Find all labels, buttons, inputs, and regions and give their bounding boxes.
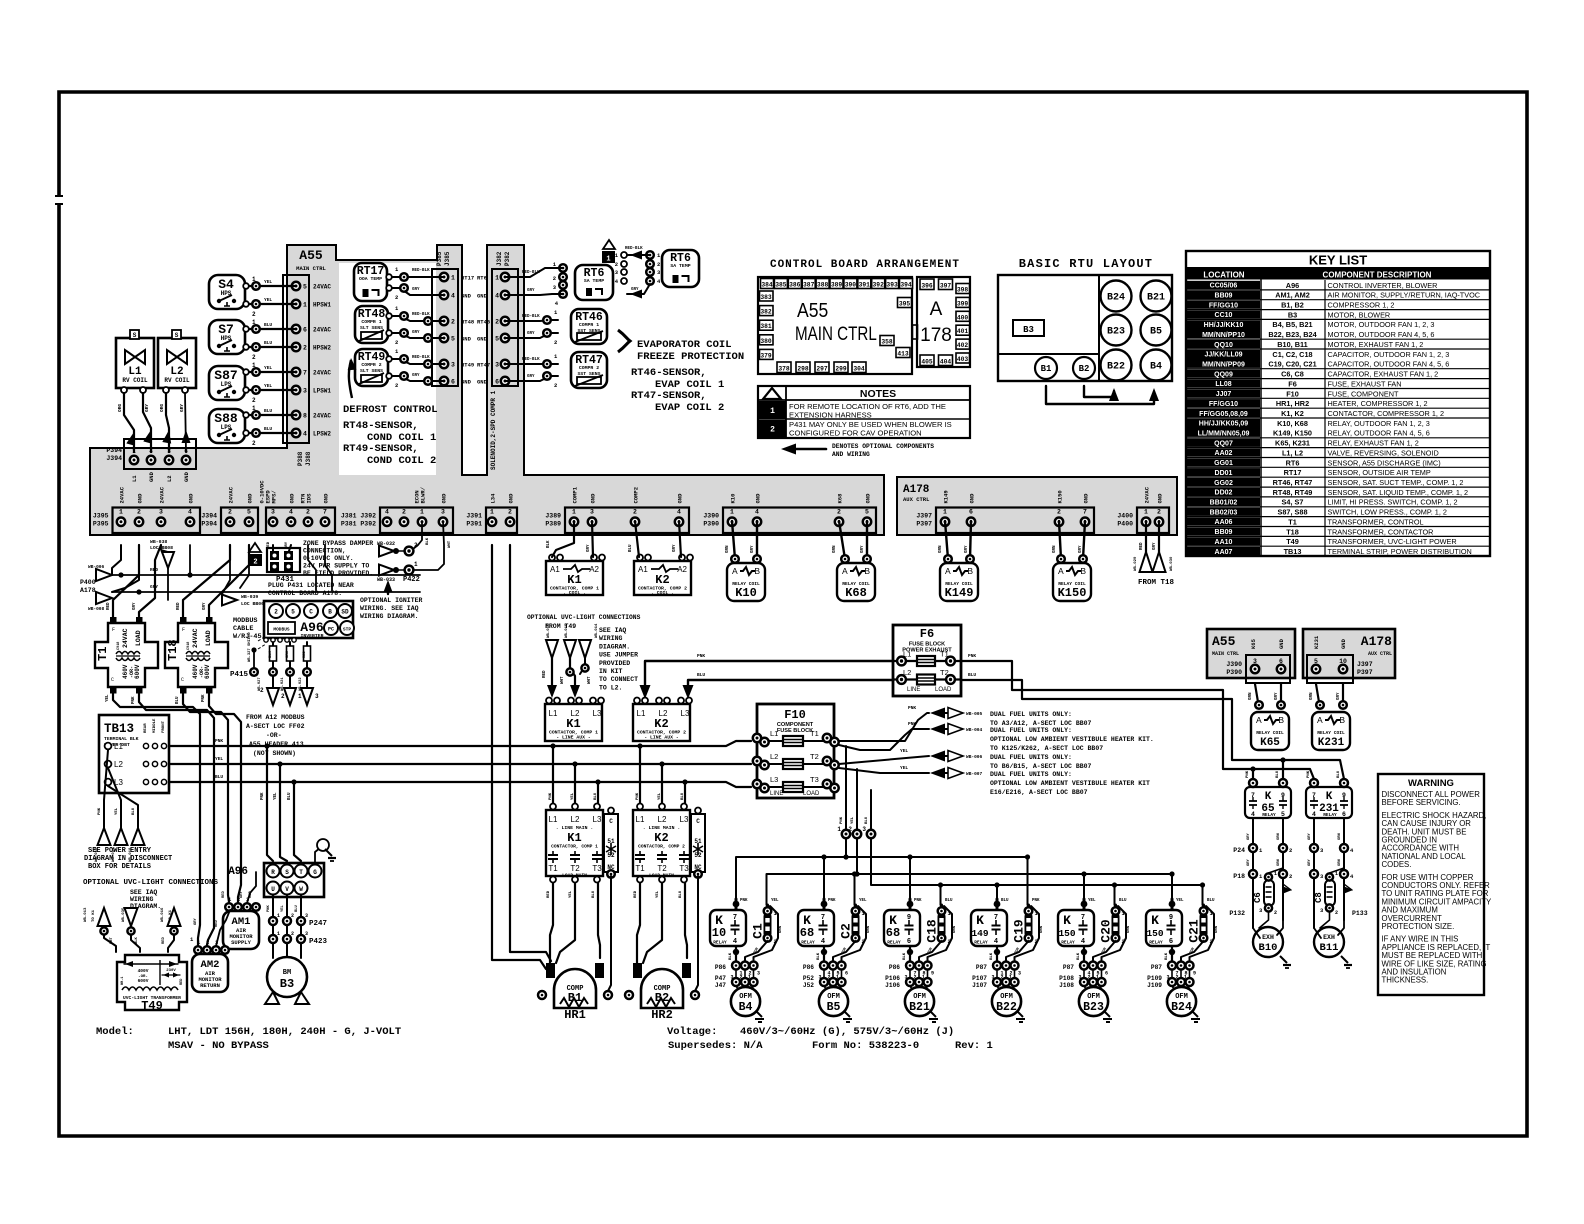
svg-text:J400: J400 <box>1117 513 1133 520</box>
svg-text:YEL: YEL <box>658 792 662 800</box>
svg-text:LPSW2: LPSW2 <box>313 431 331 438</box>
dual fuel arrow WB-006 <box>930 751 945 762</box>
svg-text:358: 358 <box>881 339 893 346</box>
svg-text:1: 1 <box>1009 975 1012 981</box>
svg-text:RTN: RTN <box>300 494 307 504</box>
svg-text:RELAY, OUTDOOR FAN 4, 5, 6: RELAY, OUTDOOR FAN 4, 5, 6 <box>1328 429 1430 438</box>
reversing valve solenoid L2 <box>158 338 196 388</box>
svg-text:WB-006: WB-006 <box>966 754 983 760</box>
svg-text:386: 386 <box>789 282 801 289</box>
svg-text:GND: GND <box>1083 493 1090 504</box>
svg-text:MODBUS: MODBUS <box>233 617 257 625</box>
svg-text:BLU: BLU <box>1276 770 1280 778</box>
svg-text:RELAY: RELAY <box>1323 812 1337 818</box>
svg-text:AM1, AM2: AM1, AM2 <box>1275 291 1310 300</box>
svg-text:GRY: GRY <box>965 545 969 553</box>
svg-text:A: A <box>1317 715 1323 725</box>
svg-text:3: 3 <box>495 362 499 369</box>
svg-text:OFM: OFM <box>827 993 840 1001</box>
svg-text:4: 4 <box>755 509 759 516</box>
wire F6 T1 right to K65 K231 pnk <box>961 661 1314 779</box>
svg-text:DENOTES OPTIONAL COMPONENTS: DENOTES OPTIONAL COMPONENTS <box>832 443 934 450</box>
svg-text:BLU: BLU <box>629 544 633 552</box>
svg-text:B: B <box>967 566 973 576</box>
svg-text:P86: P86 <box>889 964 900 971</box>
svg-text:YEL: YEL <box>274 792 278 800</box>
svg-text:T3: T3 <box>592 864 602 873</box>
svg-text:6: 6 <box>969 509 973 516</box>
svg-text:HR1: HR1 <box>564 1008 586 1022</box>
svg-text:B4, B5, B21: B4, B5, B21 <box>1272 320 1312 329</box>
svg-text:YEL: YEL <box>571 792 575 800</box>
svg-text:TERMINAL STRIP, POWER DISTRIBU: TERMINAL STRIP, POWER DISTRIBUTION <box>1328 547 1472 556</box>
svg-text:BLK: BLK <box>1165 952 1169 960</box>
key list row RT6 <box>1187 458 1260 466</box>
wires K2 load to B2 <box>637 883 640 963</box>
svg-text:24VAC: 24VAC <box>228 486 235 503</box>
svg-text:A55: A55 <box>797 299 828 321</box>
svg-text:GRN: GRN <box>726 545 730 553</box>
svg-text:2: 2 <box>1088 975 1091 981</box>
svg-text:GND: GND <box>148 471 155 482</box>
svg-text:IN KIT: IN KIT <box>599 668 623 675</box>
svg-text:3: 3 <box>1079 975 1082 981</box>
svg-text:PNK: PNK <box>636 792 640 800</box>
svg-text:WB-016: WB-016 <box>161 907 165 922</box>
svg-text:FF/GG10: FF/GG10 <box>1209 401 1238 408</box>
svg-text:P423: P423 <box>309 938 328 946</box>
uvc triangles to K1 aux <box>546 640 558 658</box>
svg-text:. LOAD MAIN .: . LOAD MAIN . <box>644 873 680 879</box>
svg-text:BLU: BLU <box>594 792 598 800</box>
svg-text:S: S <box>133 332 137 339</box>
key list table <box>1186 251 1490 556</box>
svg-text:24VAC: 24VAC <box>122 628 129 648</box>
outdoor fan relay K10 capacitor C1 motor B4 <box>735 899 738 910</box>
svg-text:A178: A178 <box>903 484 930 496</box>
svg-text:. LOAD MAIN .: . LOAD MAIN . <box>557 873 593 879</box>
svg-text:RT46: RT46 <box>477 319 490 326</box>
wire S4 pin1 to A55 <box>245 285 296 287</box>
svg-text:2: 2 <box>914 975 917 981</box>
svg-text:2: 2 <box>1289 847 1292 854</box>
svg-text:388: 388 <box>817 282 829 289</box>
svg-text:HPSW2: HPSW2 <box>313 345 331 352</box>
key list row C6, C8 <box>1187 370 1260 378</box>
svg-text:AA07: AA07 <box>1215 549 1233 556</box>
svg-text:J108: J108 <box>1059 982 1074 989</box>
wire S4 pin2 to A55 <box>245 303 296 305</box>
svg-text:K68: K68 <box>845 586 867 600</box>
svg-text:7: 7 <box>1083 509 1087 516</box>
svg-text:10: 10 <box>712 926 726 940</box>
svg-text:P106: P106 <box>885 975 900 982</box>
svg-text:OPTIONAL LOW AMBIENT VESTIBULE: OPTIONAL LOW AMBIENT VESTIBULE HEATER KI… <box>990 780 1150 787</box>
svg-text:EXH: EXH <box>1323 934 1335 941</box>
svg-text:Supersedes: N/A: Supersedes: N/A <box>668 1040 763 1052</box>
transformer T1 control <box>95 623 158 687</box>
svg-text:2: 2 <box>303 345 307 352</box>
svg-text:BLU: BLU <box>865 816 869 824</box>
svg-text:C6: C6 <box>1253 892 1263 903</box>
svg-text:JJ07: JJ07 <box>1216 391 1232 398</box>
svg-text:BLU: BLU <box>176 696 180 704</box>
svg-text:TO CONNECT: TO CONNECT <box>599 676 638 683</box>
relay feed rail pnk <box>736 857 1028 899</box>
svg-text:HR2: HR2 <box>651 1008 673 1022</box>
svg-text:PNT: PNT <box>110 936 114 944</box>
svg-text:BLK: BLK <box>547 540 551 548</box>
svg-text:YEL: YEL <box>106 694 110 702</box>
svg-text:1: 1 <box>836 975 839 981</box>
svg-text:LL/MM/NN05,09: LL/MM/NN05,09 <box>1198 431 1250 438</box>
svg-text:394: 394 <box>900 282 912 289</box>
svg-text:BASIC RTU LAYOUT: BASIC RTU LAYOUT <box>1019 257 1153 271</box>
svg-text:68: 68 <box>800 926 814 940</box>
feed wires K68 <box>823 857 825 899</box>
A178 aux ctrl right box <box>1303 629 1395 678</box>
svg-text:K1: K1 <box>567 573 581 587</box>
svg-text:YEL: YEL <box>1088 899 1096 903</box>
svg-text:DUAL FUEL UNITS ONLY:: DUAL FUEL UNITS ONLY: <box>990 711 1072 718</box>
svg-text:BB02/03: BB02/03 <box>1210 509 1238 516</box>
svg-text:2: 2 <box>281 693 285 700</box>
svg-text:2: 2 <box>740 975 743 981</box>
sensor RT47 compr 2 SST <box>571 352 607 388</box>
svg-text:RED: RED <box>222 890 226 898</box>
svg-text:2: 2 <box>252 440 256 447</box>
svg-text:4: 4 <box>821 938 825 946</box>
svg-text:1: 1 <box>922 975 925 981</box>
fan circle B22 <box>1101 350 1132 381</box>
svg-text:WB-029: WB-029 <box>1134 556 1138 571</box>
svg-text:RT6: RT6 <box>477 275 487 282</box>
svg-text:GRY: GRY <box>412 374 420 378</box>
svg-text:L2: L2 <box>658 815 667 824</box>
svg-text:A: A <box>1058 566 1064 576</box>
svg-text:PNK: PNK <box>202 694 206 702</box>
note triangle 2 <box>249 543 261 552</box>
svg-text:GND: GND <box>969 493 976 504</box>
svg-text:L34: L34 <box>490 493 497 504</box>
svg-text:FROM A12 MODBUS: FROM A12 MODBUS <box>246 714 305 721</box>
svg-text:PNK: PNK <box>261 792 265 800</box>
svg-text:T1: T1 <box>810 729 819 738</box>
svg-text:MOTOR, EXHAUST FAN 1, 2: MOTOR, EXHAUST FAN 1, 2 <box>1328 340 1424 349</box>
svg-text:2: 2 <box>252 397 256 404</box>
svg-text:299: 299 <box>835 366 847 373</box>
pin 1 HPSW1 <box>292 300 300 308</box>
sensor RT49 compr 2 SLT <box>355 349 388 386</box>
svg-text:WIRING. SEE IAQ: WIRING. SEE IAQ <box>360 605 419 612</box>
svg-text:REAR: REAR <box>144 723 148 733</box>
svg-text:A55 HEADER 413: A55 HEADER 413 <box>249 741 304 748</box>
svg-text:GG01: GG01 <box>1214 460 1233 467</box>
svg-text:C: C <box>309 609 313 616</box>
wire S88 pin1 to A55 <box>245 414 296 416</box>
svg-text:Form No: 538223-0: Form No: 538223-0 <box>812 1040 919 1052</box>
svg-text:YEL: YEL <box>281 904 285 912</box>
svg-text:EVAPORATOR COIL: EVAPORATOR COIL <box>637 339 732 351</box>
svg-text:SEE IAQ: SEE IAQ <box>130 889 157 896</box>
svg-text:S4, S7: S4, S7 <box>1282 498 1304 507</box>
svg-text:A178: A178 <box>80 587 96 594</box>
svg-text:A: A <box>732 566 738 576</box>
A96 modbus wires down <box>258 636 266 649</box>
connector P247 <box>269 917 277 925</box>
svg-text:BLU: BLU <box>264 322 272 328</box>
wire J389-3 to K1 A2 <box>592 521 593 557</box>
svg-text:2: 2 <box>306 509 310 516</box>
svg-text:RT17: RT17 <box>461 275 474 282</box>
svg-text:T2: T2 <box>810 752 819 761</box>
svg-text:K149: K149 <box>943 490 950 503</box>
svg-text:F10: F10 <box>784 708 806 722</box>
svg-text:600V: 600V <box>138 978 149 984</box>
svg-text:. COIL .: . COIL . <box>563 590 586 596</box>
svg-text:K149, K150: K149, K150 <box>1273 429 1312 438</box>
svg-text:RELAY, EXHAUST FAN 1, 2: RELAY, EXHAUST FAN 1, 2 <box>1328 439 1419 448</box>
warning box <box>1378 774 1484 995</box>
key list row B10, B11 <box>1187 340 1260 348</box>
svg-text:K150: K150 <box>1057 490 1064 503</box>
svg-text:B21: B21 <box>909 1001 930 1014</box>
svg-text:2: 2 <box>554 382 557 389</box>
svg-text:3: 3 <box>303 388 307 395</box>
svg-text:SLT SENS: SLT SENS <box>360 325 383 331</box>
svg-text:RED: RED <box>215 919 219 927</box>
svg-text:LOAD: LOAD <box>135 630 142 646</box>
switch S4 <box>209 275 245 309</box>
svg-text:1: 1 <box>730 509 734 516</box>
svg-text:1: 1 <box>252 362 256 369</box>
sensor RT6 SA temp unit 2 (remote) <box>662 250 699 287</box>
svg-text:3: 3 <box>159 509 163 516</box>
svg-text:396: 396 <box>921 283 933 290</box>
svg-text:RELAY: RELAY <box>887 940 901 946</box>
svg-text:WB-016: WB-016 <box>547 623 551 638</box>
svg-text:GRN: GRN <box>833 545 837 553</box>
svg-text:10: 10 <box>1339 658 1347 665</box>
svg-text:K68: K68 <box>837 493 844 504</box>
svg-text:399: 399 <box>957 300 969 307</box>
wire F6 L2 to K2 aux <box>688 680 893 694</box>
svg-text:GG02: GG02 <box>1214 480 1233 487</box>
power rail L2 yel <box>112 763 751 765</box>
svg-text:C918: C918 <box>117 642 121 650</box>
svg-text:GRY: GRY <box>631 288 639 292</box>
contactor K2 line aux <box>633 704 690 741</box>
svg-text:RED: RED <box>107 602 111 610</box>
svg-text:298: 298 <box>797 366 809 373</box>
svg-text:B23: B23 <box>1083 1001 1104 1014</box>
svg-text:4: 4 <box>385 509 389 516</box>
svg-text:YEL: YEL <box>115 807 119 815</box>
svg-text:C: C <box>181 677 184 683</box>
svg-text:RED: RED <box>150 567 158 573</box>
svg-text:YEL: YEL <box>656 890 660 898</box>
wire RT sensor 1 to J385 <box>388 276 444 278</box>
svg-text:1: 1 <box>277 913 280 919</box>
wire J389-4 to K2 A2 <box>679 521 681 557</box>
svg-text:FUSE BLOCK: FUSE BLOCK <box>777 728 813 734</box>
svg-text:378: 378 <box>778 366 790 373</box>
svg-text:1: 1 <box>606 256 610 264</box>
svg-text:3: 3 <box>590 509 594 516</box>
key list row B1, B2 <box>1187 301 1260 309</box>
wire F6 T2 right to K65 K231 blu <box>961 680 1344 779</box>
svg-text:P385: P385 <box>436 251 443 266</box>
svg-text:A: A <box>1256 715 1262 725</box>
svg-text:GRY: GRY <box>1308 832 1312 840</box>
svg-text:GRY: GRY <box>1153 542 1157 550</box>
svg-text:GND: GND <box>441 493 448 504</box>
svg-text:WHT: WHT <box>588 676 592 684</box>
svg-text:PNK: PNK <box>1246 770 1250 778</box>
dual fuel arrow WB-007 <box>930 768 945 779</box>
svg-text:RED: RED <box>162 936 166 944</box>
pin 5 24VAC <box>292 282 300 290</box>
A55 main ctrl right box <box>1207 629 1295 678</box>
svg-text:T1: T1 <box>635 864 645 873</box>
svg-text:BLU: BLU <box>697 672 705 678</box>
svg-text:SWITCH, LOW PRESS., COMP. 1, 2: SWITCH, LOW PRESS., COMP. 1, 2 <box>1328 508 1447 517</box>
svg-text:WB-013: WB-013 <box>84 907 88 922</box>
svg-text:K1: K1 <box>566 717 580 731</box>
svg-text:CODES.: CODES. <box>1382 860 1412 869</box>
svg-text:YEL: YEL <box>264 383 272 389</box>
svg-text:RT47: RT47 <box>477 362 490 369</box>
wire RT sensor 2 to J385 <box>388 316 444 321</box>
svg-text:GRY: GRY <box>587 544 591 552</box>
svg-text:3: 3 <box>441 509 445 516</box>
svg-text:L1, L2: L1, L2 <box>1282 448 1303 457</box>
svg-text:2: 2 <box>633 509 637 516</box>
svg-text:5: 5 <box>291 609 295 616</box>
svg-text:SUPPLY: SUPPLY <box>231 939 252 946</box>
wire RT sensor 3 to J385 <box>388 359 444 364</box>
svg-text:T1: T1 <box>96 647 110 661</box>
key list row T18 <box>1187 527 1260 535</box>
svg-text:OFM: OFM <box>739 993 752 1001</box>
svg-text:L3: L3 <box>681 709 690 718</box>
svg-text:OPTIONAL IGNITER: OPTIONAL IGNITER <box>360 597 423 604</box>
svg-text:C: C <box>609 818 613 825</box>
svg-text:TO L2.: TO L2. <box>599 684 622 691</box>
white panel behind RT17 RT48 RT49 defrost control <box>339 263 436 475</box>
svg-text:2: 2 <box>1176 975 1179 981</box>
wire S88 pin2 to A55 <box>245 432 296 434</box>
svg-text:CAPACITOR, OUTDOOR FAN 4, 5, 6: CAPACITOR, OUTDOOR FAN 4, 5, 6 <box>1328 360 1450 369</box>
svg-text:402: 402 <box>957 342 969 349</box>
wires TB13 down to power entry <box>104 750 108 828</box>
key list row TB13 <box>1187 547 1260 555</box>
svg-text:BLK: BLK <box>426 537 430 545</box>
key list row F10 <box>1187 389 1260 397</box>
svg-text:2: 2 <box>508 509 512 516</box>
key list row S4, S7 <box>1187 498 1260 506</box>
svg-text:BLK: BLK <box>903 952 907 960</box>
svg-text:A55: A55 <box>1212 634 1236 649</box>
wire S87 pin2 to A55 <box>245 389 296 391</box>
svg-text:GND: GND <box>508 493 515 504</box>
svg-text:MM/NN/PP10: MM/NN/PP10 <box>1202 332 1245 339</box>
svg-text:THICKNESS.: THICKNESS. <box>1382 976 1429 985</box>
svg-text:AUX CTRL: AUX CTRL <box>1368 651 1392 657</box>
wires igniter <box>413 521 422 549</box>
svg-text:RT6: RT6 <box>1286 458 1300 467</box>
svg-text:LINE: LINE <box>907 687 920 693</box>
svg-text:1: 1 <box>252 319 256 326</box>
svg-text:A-SECT LOC FF02: A-SECT LOC FF02 <box>246 723 305 730</box>
svg-text:BLU: BLU <box>592 890 596 898</box>
svg-text:. COIL .: . COIL . <box>651 590 674 596</box>
svg-text:460V: 460V <box>192 664 199 679</box>
svg-text:2: 2 <box>451 319 455 326</box>
svg-text:P390: P390 <box>1226 669 1242 676</box>
svg-text:WH-1: WH-1 <box>121 977 125 985</box>
K1 aux capacitor column <box>604 814 618 872</box>
wire to K68 A <box>839 521 845 559</box>
svg-text:V: V <box>285 886 289 893</box>
connector J395 P395 <box>113 508 201 534</box>
svg-text:C: C <box>111 677 114 683</box>
svg-text:COMP1: COMP1 <box>572 486 579 503</box>
svg-text:P107: P107 <box>972 975 987 982</box>
svg-text:SEE IAQ: SEE IAQ <box>599 627 626 634</box>
svg-text:WIRING: WIRING <box>599 635 623 642</box>
svg-text:RELAY: RELAY <box>713 940 727 946</box>
wire F6 L1 to K2 aux <box>645 661 893 694</box>
svg-text:2: 2 <box>1157 509 1161 516</box>
svg-text:EXTENSION HARNESS: EXTENSION HARNESS <box>789 411 872 420</box>
svg-text:3: 3 <box>305 913 308 919</box>
svg-text:BLK: BLK <box>817 952 821 960</box>
zone bypass damper connector P431 <box>267 548 300 572</box>
svg-text:P388: P388 <box>297 451 304 466</box>
svg-text:1: 1 <box>277 931 280 937</box>
svg-text:WB-004: WB-004 <box>966 727 983 733</box>
sensor RT46 compr 1 SST <box>571 309 607 344</box>
svg-text:MPS/: MPS/ <box>271 490 278 504</box>
svg-text:398: 398 <box>957 287 969 294</box>
svg-text:5: 5 <box>495 336 499 343</box>
svg-text:C19, C20, C21: C19, C20, C21 <box>1268 360 1316 369</box>
svg-text:HH/JJ/KK05,09: HH/JJ/KK05,09 <box>1199 421 1249 428</box>
svg-text:1: 1 <box>420 509 424 516</box>
svg-text:LOAD: LOAD <box>935 687 952 693</box>
svg-text:WHT: WHT <box>448 540 452 548</box>
svg-text:S: S <box>285 869 289 876</box>
connector J400 P400 <box>1137 508 1169 534</box>
svg-text:4: 4 <box>188 509 192 516</box>
svg-text:ORN: ORN <box>867 925 871 933</box>
svg-text:GND: GND <box>461 336 472 343</box>
relay coil K68 <box>837 563 875 601</box>
svg-text:A2: A2 <box>589 565 599 574</box>
key list row K10, K68 <box>1187 419 1260 437</box>
svg-text:BLU: BLU <box>1207 899 1215 903</box>
svg-text:B23: B23 <box>1107 327 1125 338</box>
wires T1 T18 bottoms to air monitors <box>113 691 200 945</box>
svg-text:P382: P382 <box>504 251 511 266</box>
svg-text:460V: 460V <box>122 664 129 679</box>
svg-text:GRY: GRY <box>1247 858 1251 866</box>
wires F10 to pins 123 <box>845 746 847 829</box>
svg-text:B: B <box>1080 566 1086 576</box>
svg-text:RT48, RT49: RT48, RT49 <box>1273 488 1313 497</box>
svg-text:TO A3/A12, A-SECT LOC BB07: TO A3/A12, A-SECT LOC BB07 <box>990 720 1092 727</box>
